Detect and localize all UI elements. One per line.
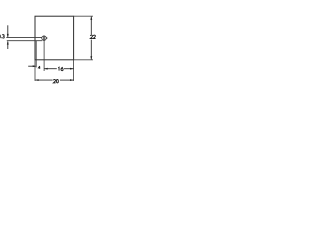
terminal bar xyxy=(43,36,44,40)
dim 20 xyxy=(35,79,73,83)
inner vertical line B xyxy=(43,40,45,71)
top extension line xyxy=(74,15,93,17)
inner vertical line A xyxy=(35,41,37,68)
dim 16 xyxy=(44,67,73,71)
part outline xyxy=(35,16,74,60)
lead dim label 0.3 xyxy=(0,35,4,39)
right extension below xyxy=(73,60,75,81)
bottom extension line xyxy=(74,59,93,61)
lead dim lower arrow xyxy=(7,41,9,49)
dim 22 xyxy=(90,16,95,59)
terminal arrow xyxy=(46,37,48,39)
left extension below xyxy=(34,60,36,81)
lead dim upper arrow xyxy=(7,25,9,37)
terminal circle xyxy=(42,36,46,40)
dim 4 xyxy=(28,65,40,69)
lead wire bottom line xyxy=(7,40,42,42)
lead wire top line xyxy=(6,37,42,39)
